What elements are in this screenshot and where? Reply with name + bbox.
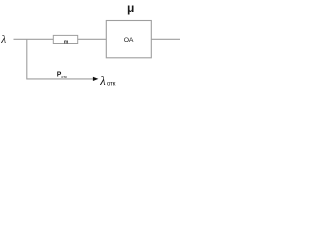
- background: [0, 0, 180, 90]
- wire: block OA output to right edge: [151, 38, 180, 40]
- svg-text:ОА: ОА: [124, 37, 134, 44]
- arrowhead of bottom wire: [93, 77, 99, 81]
- svg-text:отк: отк: [107, 81, 116, 88]
- svg-text:λ: λ: [99, 74, 106, 88]
- svg-text:μ: μ: [127, 1, 134, 15]
- wire: junction drop and bottom run: [27, 39, 94, 79]
- wire: lambda to block m: [14, 38, 54, 40]
- svg-text:λ: λ: [0, 34, 6, 46]
- svg-text:m: m: [64, 39, 69, 45]
- block m: [53, 35, 77, 45]
- wire: block m to block OA: [78, 38, 107, 40]
- block OA: [106, 21, 151, 58]
